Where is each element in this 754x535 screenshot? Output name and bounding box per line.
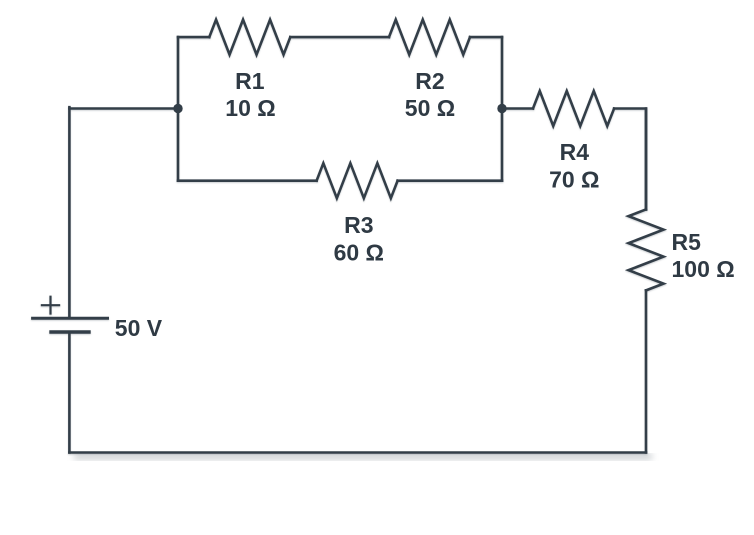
svg-text:70 Ω: 70 Ω bbox=[549, 167, 599, 193]
node B junction dot bbox=[497, 104, 506, 113]
svg-text:R5: R5 bbox=[672, 229, 702, 255]
wire node B to R4 bbox=[502, 107, 533, 110]
svg-text:10 Ω: 10 Ω bbox=[225, 95, 275, 121]
wire bottom bbox=[69, 451, 646, 454]
wire right vertical upper bbox=[645, 109, 648, 210]
wire R3 to node B bbox=[398, 179, 502, 182]
wire top left bbox=[178, 36, 209, 39]
battery V1 plate short negative bbox=[51, 330, 89, 333]
wire node A up bbox=[177, 37, 180, 108]
wire right vertical lower bbox=[645, 290, 648, 452]
node A junction dot bbox=[173, 104, 182, 113]
svg-text:50 V: 50 V bbox=[115, 315, 163, 341]
wire bottom shadow bbox=[74, 454, 652, 459]
svg-text:R3: R3 bbox=[344, 212, 373, 238]
wire node B up bbox=[501, 37, 504, 108]
battery V1 plate long positive bbox=[33, 317, 108, 320]
resistor R4 zigzag bbox=[533, 91, 614, 126]
wire R4 to right corner bbox=[614, 109, 646, 210]
wire node B down bbox=[501, 109, 504, 181]
svg-text:R1: R1 bbox=[235, 68, 265, 94]
resistor R2 zigzag bbox=[389, 20, 470, 55]
resistor R1 zigzag bbox=[209, 20, 290, 55]
battery plus sign bbox=[42, 297, 59, 314]
svg-text:60 Ω: 60 Ω bbox=[334, 239, 384, 265]
svg-text:50 Ω: 50 Ω bbox=[405, 95, 455, 121]
wire top right bbox=[470, 36, 502, 39]
wire battery to bottom bbox=[68, 332, 71, 453]
svg-text:R4: R4 bbox=[560, 139, 590, 165]
wire node A down bbox=[177, 109, 180, 181]
wire left vertical to battery bbox=[68, 107, 71, 317]
resistor R5 zigzag bbox=[629, 209, 664, 290]
wire middle left bbox=[178, 179, 317, 182]
svg-text:R2: R2 bbox=[415, 68, 444, 94]
wire R1 to R2 bbox=[290, 36, 389, 39]
svg-text:100 Ω: 100 Ω bbox=[672, 256, 735, 282]
resistor R3 zigzag bbox=[317, 163, 398, 198]
wire node A to left bbox=[69, 107, 178, 110]
